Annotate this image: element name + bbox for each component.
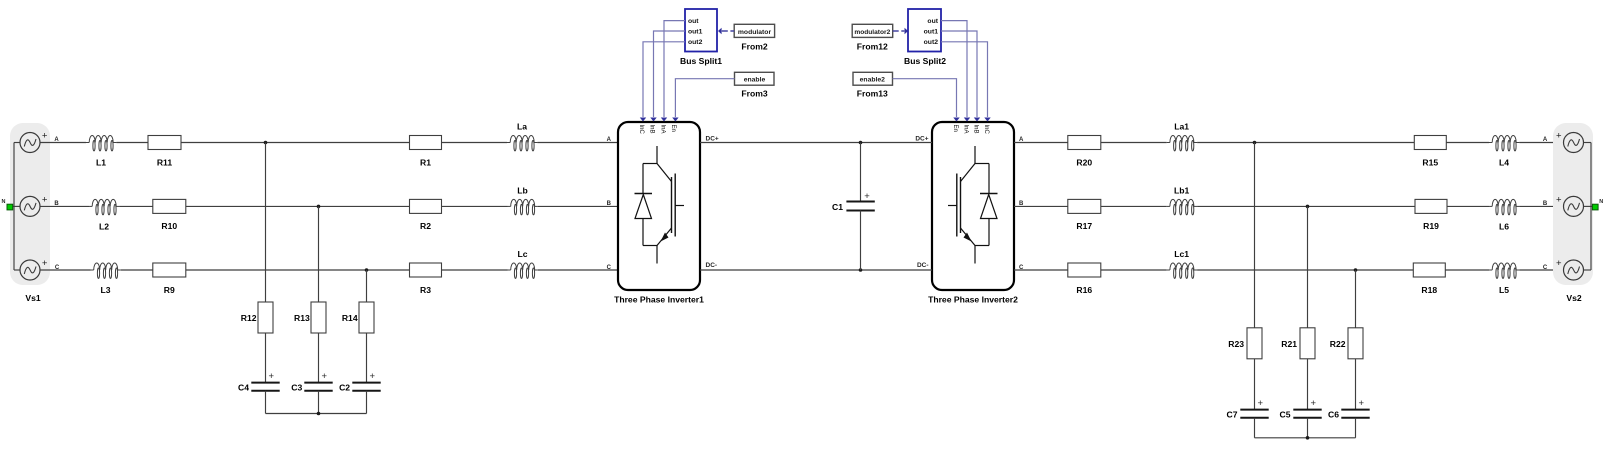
svg-text:R19: R19 — [1423, 221, 1439, 231]
wire R9 to R3 (node C1) — [186, 269, 410, 271]
AC source Vs1 phase C — [20, 258, 48, 280]
svg-text:B: B — [54, 201, 59, 207]
node DC+ junction — [859, 141, 863, 145]
junction bottom shunt left — [317, 412, 321, 416]
capacitor C2 — [339, 371, 381, 393]
svg-text:out2: out2 — [924, 39, 939, 46]
svg-text:+: + — [42, 131, 48, 142]
capacitor C7 — [1227, 398, 1269, 420]
wire R20 to La1 — [1101, 142, 1167, 144]
neutral terminal N of Vs2 — [1592, 199, 1603, 210]
wire R19 to L6 — [1447, 205, 1489, 207]
svg-text:L6: L6 — [1499, 222, 1509, 232]
resistor R21 — [1281, 328, 1315, 359]
wire Vs1 neutral bus — [13, 143, 20, 271]
wire R13 to C3 — [318, 333, 320, 383]
resistor R2 — [410, 199, 442, 231]
wire L2 to R10 — [119, 205, 153, 207]
svg-text:Vs2: Vs2 — [1566, 293, 1582, 303]
svg-text:R17: R17 — [1076, 221, 1092, 231]
svg-text:From3: From3 — [741, 89, 767, 99]
signal wire Bus Split1 out1 to inverter1 InB — [650, 31, 685, 122]
wire node C1 down to R14 — [366, 270, 368, 302]
svg-text:+: + — [864, 191, 870, 202]
signal wire Bus Split2 out2 to inverter2 InC — [941, 42, 991, 122]
AC source Vs1 phase B — [20, 195, 48, 217]
AC source Vs2 phase A — [1556, 131, 1583, 153]
resistor R1 — [410, 136, 442, 168]
inductor L6 — [1489, 199, 1519, 231]
wire L5 to Vs2 C — [1519, 269, 1563, 271]
signal wire From2 to Bus Split1 — [718, 28, 734, 35]
capacitor C4 — [238, 371, 280, 393]
svg-text:En: En — [670, 125, 676, 132]
wire C2 down — [366, 391, 368, 414]
wire L1 to R11 — [116, 142, 148, 144]
wire R15 to L4 — [1446, 142, 1489, 144]
svg-text:+: + — [269, 371, 275, 382]
svg-text:R22: R22 — [1330, 339, 1346, 349]
svg-text:out: out — [688, 18, 699, 25]
bus selector Bus Split2 body — [908, 9, 941, 52]
resistor R22 — [1330, 328, 1363, 359]
wire Lc to inverter1 C — [538, 269, 618, 271]
svg-text:Lc: Lc — [517, 249, 527, 259]
svg-text:C3: C3 — [291, 383, 302, 393]
svg-text:enable2: enable2 — [860, 77, 886, 84]
svg-text:+: + — [1556, 195, 1562, 206]
node B2 junction — [1306, 205, 1310, 209]
svg-text:C: C — [55, 265, 60, 271]
svg-text:+: + — [1556, 131, 1562, 142]
svg-text:C: C — [1543, 265, 1548, 271]
node C1 junction — [365, 268, 369, 272]
resistor R3 — [410, 263, 442, 295]
svg-text:R23: R23 — [1228, 339, 1244, 349]
wire node A1 down to R12 — [265, 143, 267, 303]
wire R14 to C2 — [366, 333, 368, 383]
wire C1 to DC- rail — [860, 211, 862, 271]
from tag From13 (enable2) — [853, 72, 893, 98]
svg-text:R10: R10 — [161, 221, 177, 231]
svg-text:R12: R12 — [241, 313, 257, 323]
resistor R9 — [153, 263, 186, 295]
wire Lc1 to R18 (node C2) — [1197, 269, 1413, 271]
svg-text:C2: C2 — [339, 383, 350, 393]
wire C4 down — [265, 391, 267, 414]
junction bottom shunt right — [1306, 436, 1310, 440]
wire R18 to L5 — [1445, 269, 1489, 271]
svg-text:R21: R21 — [1281, 339, 1297, 349]
three-phase inverter Three Phase Inverter2 body — [928, 122, 1018, 305]
svg-text:R18: R18 — [1421, 285, 1437, 295]
wire phase A: Vs1 to L1 — [41, 142, 87, 144]
wire R10 to R2 (node B1) — [186, 205, 410, 207]
inductor La1 — [1167, 122, 1197, 152]
svg-text:B: B — [1543, 201, 1548, 207]
node A1 junction — [264, 141, 268, 145]
svg-text:Vs1: Vs1 — [25, 293, 41, 303]
svg-text:From13: From13 — [857, 89, 888, 99]
svg-text:En: En — [952, 125, 958, 132]
svg-text:A: A — [607, 137, 612, 143]
svg-text:+: + — [322, 371, 328, 382]
svg-text:DC+: DC+ — [706, 136, 719, 143]
svg-text:Three Phase Inverter2: Three Phase Inverter2 — [928, 295, 1018, 305]
resistor R12 — [241, 302, 273, 333]
svg-text:Lb1: Lb1 — [1174, 185, 1189, 195]
IGBT/diode icon of Three Phase Inverter1 — [635, 146, 685, 264]
resistor R15 — [1414, 136, 1446, 168]
svg-text:R2: R2 — [420, 221, 431, 231]
svg-text:L4: L4 — [1499, 158, 1509, 168]
wire inverter2 C to R16 — [1014, 269, 1068, 271]
node A2 junction — [1253, 141, 1257, 145]
svg-text:L1: L1 — [96, 158, 106, 168]
svg-text:InA: InA — [659, 125, 665, 134]
wire C6 down — [1355, 418, 1357, 438]
wire R3 to Lc — [442, 269, 508, 271]
inductor Lb1 — [1167, 185, 1197, 215]
from tag From12 (modulator2) — [852, 24, 893, 51]
svg-text:Bus Split1: Bus Split1 — [680, 56, 722, 66]
resistor R23 — [1228, 328, 1262, 359]
wire C3 down — [318, 391, 320, 414]
svg-text:From12: From12 — [857, 41, 888, 51]
resistor R13 — [294, 302, 326, 333]
svg-text:R15: R15 — [1422, 157, 1438, 167]
svg-text:DC-: DC- — [706, 262, 718, 269]
svg-text:R11: R11 — [157, 157, 173, 167]
svg-text:C7: C7 — [1227, 410, 1238, 420]
wire C5 down — [1307, 418, 1309, 438]
svg-text:+: + — [42, 258, 48, 269]
wire inverter2 A to R20 — [1014, 142, 1068, 144]
from tag From2 (modulator) — [734, 24, 774, 51]
inductor L1 — [86, 136, 116, 168]
resistor R19 — [1415, 199, 1447, 231]
node C2 junction — [1354, 268, 1358, 272]
signal wire Bus Split1 out2 to inverter1 InC — [640, 42, 685, 122]
svg-text:modulator2: modulator2 — [854, 29, 890, 36]
svg-text:R1: R1 — [420, 157, 431, 167]
svg-text:+: + — [1258, 398, 1264, 409]
svg-text:+: + — [1311, 398, 1317, 409]
svg-text:InC: InC — [638, 125, 644, 135]
wire shunt common bottom (left) — [266, 413, 367, 415]
wire shunt common bottom (right) — [1255, 437, 1356, 439]
three-phase source Vs1 body — [10, 123, 50, 285]
inductor L2 — [89, 199, 119, 231]
resistor R18 — [1413, 263, 1445, 295]
svg-text:C: C — [607, 265, 612, 271]
inductor L4 — [1489, 136, 1519, 168]
wire phase B: Vs1 to L2 — [41, 205, 90, 207]
wire phase C: Vs1 to L3 — [41, 269, 91, 271]
capacitor C6 — [1328, 398, 1370, 420]
svg-text:InC: InC — [983, 125, 989, 135]
inductor La — [507, 122, 537, 152]
AC source Vs2 phase C — [1556, 258, 1583, 280]
wire node B1 down to R13 — [318, 206, 320, 302]
wire node A2 down to R23 — [1254, 143, 1256, 328]
svg-text:InB: InB — [648, 125, 654, 134]
svg-text:Bus Split2: Bus Split2 — [904, 56, 946, 66]
signal wire Bus Split1 out to inverter1 InA — [661, 21, 685, 122]
svg-text:+: + — [1359, 398, 1365, 409]
svg-text:InB: InB — [972, 125, 978, 134]
svg-text:C1: C1 — [832, 202, 843, 212]
resistor R11 — [148, 136, 181, 168]
resistor R20 — [1068, 136, 1101, 168]
bus selector Bus Split1 body — [685, 9, 717, 52]
svg-text:R3: R3 — [420, 285, 431, 295]
neutral terminal N of Vs1 — [2, 199, 13, 210]
svg-text:A: A — [54, 137, 59, 143]
wire R21 to C5 — [1307, 359, 1309, 410]
svg-text:Three Phase Inverter1: Three Phase Inverter1 — [614, 295, 704, 305]
svg-text:B: B — [607, 201, 612, 207]
svg-text:modulator: modulator — [738, 29, 772, 36]
svg-text:Lb: Lb — [517, 185, 528, 195]
svg-text:L5: L5 — [1499, 285, 1509, 295]
svg-text:enable: enable — [744, 77, 766, 84]
svg-text:out1: out1 — [924, 29, 939, 36]
svg-text:A: A — [1543, 137, 1548, 143]
IGBT/diode icon of Three Phase Inverter2 — [948, 146, 998, 264]
wire R17 to Lb1 — [1101, 205, 1167, 207]
node DC- junction — [859, 268, 863, 272]
svg-text:La: La — [517, 122, 527, 132]
resistor R17 — [1068, 199, 1101, 231]
from tag From3 (enable) — [735, 72, 775, 98]
wire R1 to La — [442, 142, 508, 144]
wire L3 to R9 — [121, 269, 153, 271]
svg-text:out1: out1 — [688, 29, 703, 36]
svg-text:Lc1: Lc1 — [1174, 249, 1189, 259]
svg-text:L3: L3 — [100, 285, 110, 295]
wire R12 to C4 — [265, 333, 267, 383]
wire Vs2 neutral bus — [1584, 143, 1596, 271]
resistor R14 — [342, 302, 374, 333]
wire Lb1 to R19 (node B2) — [1197, 205, 1415, 207]
wire L6 to Vs2 B — [1519, 205, 1563, 207]
svg-text:+: + — [1556, 258, 1562, 269]
wire inverter2 B to R17 — [1014, 205, 1068, 207]
inductor Lc1 — [1167, 249, 1197, 279]
wire C7 down — [1254, 418, 1256, 438]
inductor L5 — [1489, 263, 1519, 295]
wire R16 to Lc1 — [1101, 269, 1167, 271]
wire R2 to Lb — [442, 205, 508, 207]
svg-text:out: out — [927, 18, 938, 25]
capacitor C5 — [1280, 398, 1322, 420]
svg-text:C5: C5 — [1280, 410, 1291, 420]
svg-text:C4: C4 — [238, 383, 249, 393]
svg-text:R13: R13 — [294, 313, 310, 323]
svg-text:DC-: DC- — [917, 262, 929, 269]
svg-text:C6: C6 — [1328, 410, 1339, 420]
node B1 junction — [317, 205, 321, 209]
capacitor C3 — [291, 371, 332, 393]
svg-text:InA: InA — [962, 125, 968, 134]
resistor R10 — [153, 199, 186, 231]
svg-text:R16: R16 — [1076, 285, 1092, 295]
wire La1 to R15 (node A2) — [1197, 142, 1414, 144]
AC source Vs2 phase B — [1556, 195, 1583, 217]
wire node C2 down to R22 — [1355, 270, 1357, 328]
three-phase inverter Three Phase Inverter1 body — [614, 122, 704, 305]
signal wire From12 to Bus Split2 — [893, 28, 908, 35]
wire DC+ to C1 — [860, 143, 862, 202]
svg-text:N: N — [2, 199, 6, 205]
svg-text:N: N — [1599, 199, 1603, 205]
three-phase source Vs2 body — [1553, 123, 1593, 285]
resistor R16 — [1068, 263, 1101, 295]
signal wire Bus Split2 out1 to inverter2 InB — [941, 31, 980, 122]
inductor L3 — [91, 263, 121, 295]
svg-text:+: + — [42, 195, 48, 206]
signal wire Bus Split2 out to inverter2 InA — [941, 21, 970, 122]
wire R22 to C6 — [1355, 359, 1357, 410]
svg-text:DC+: DC+ — [915, 136, 928, 143]
svg-text:R20: R20 — [1076, 157, 1092, 167]
wire La to inverter1 A — [537, 142, 618, 144]
inductor Lc — [508, 249, 538, 279]
wire node B2 down to R21 — [1307, 206, 1309, 327]
wire R11 to R1 (node A1) — [181, 142, 410, 144]
svg-text:out2: out2 — [688, 39, 703, 46]
signal wire From13 enable2 to inverter2 En — [893, 79, 960, 122]
AC source Vs1 phase A — [20, 131, 48, 153]
wire DC+ rail — [700, 142, 932, 144]
inductor Lb — [508, 185, 538, 215]
wire DC- rail — [700, 269, 932, 271]
wire L4 to Vs2 A — [1519, 142, 1563, 144]
wire R23 to C7 — [1254, 359, 1256, 410]
signal wire From3 enable to inverter1 En — [672, 79, 734, 122]
svg-text:L2: L2 — [99, 222, 109, 232]
wire Lb to inverter1 B — [538, 205, 618, 207]
svg-text:La1: La1 — [1174, 122, 1189, 132]
svg-text:R14: R14 — [342, 313, 358, 323]
capacitor C1 — [832, 191, 875, 212]
svg-text:R9: R9 — [164, 285, 175, 295]
svg-text:From2: From2 — [741, 41, 767, 51]
svg-text:+: + — [370, 371, 376, 382]
